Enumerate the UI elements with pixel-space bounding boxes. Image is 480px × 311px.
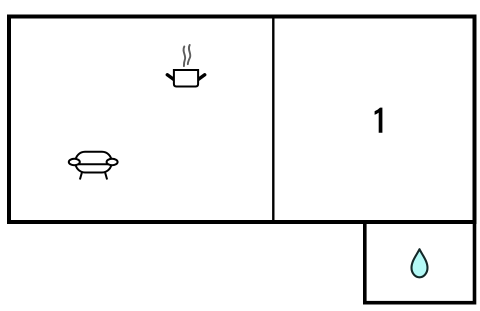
kitchen pot icon: steam line right: [188, 45, 191, 64]
bathroom wall rectangle: [365, 222, 475, 303]
sofa icon: body: [76, 152, 112, 173]
sofa icon: right armrest: [107, 159, 118, 165]
sofa icon: left armrest: [69, 159, 80, 165]
sofa icon: left leg: [80, 173, 82, 180]
kitchen pot icon: pot body: [174, 70, 198, 87]
interior partition wall: [272, 17, 274, 223]
outer wall: main rectangle: [9, 17, 475, 223]
room label 1: [375, 108, 383, 133]
kitchen pot icon: steam line left: [183, 47, 185, 67]
water drop icon: [412, 249, 428, 277]
kitchen pot icon: right handle: [199, 75, 205, 80]
sofa icon: seat line: [77, 163, 110, 165]
kitchen pot icon: left handle: [167, 75, 173, 80]
sofa icon: right leg: [105, 173, 107, 180]
